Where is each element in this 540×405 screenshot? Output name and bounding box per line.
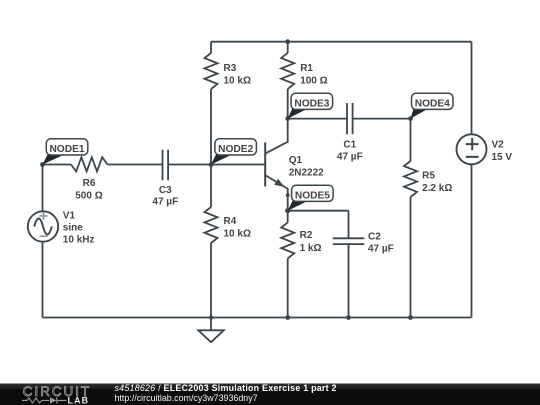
svg-text:V1: V1 bbox=[63, 211, 76, 222]
wire NODE5 junction to R2 bbox=[287, 211, 289, 223]
node NODE2 bbox=[211, 139, 256, 165]
wire bottom rail bbox=[43, 317, 472, 319]
svg-text:NODE3: NODE3 bbox=[294, 98, 329, 109]
svg-text:10 kΩ: 10 kΩ bbox=[224, 76, 251, 87]
wire NODE5 to C2 branch bbox=[288, 210, 349, 212]
wire V2 to bottom rail bbox=[471, 164, 473, 317]
voltage source V1 bbox=[28, 211, 58, 241]
svg-text:C3: C3 bbox=[159, 185, 172, 196]
capacitor C3 bbox=[163, 150, 169, 180]
svg-text:1 kΩ: 1 kΩ bbox=[300, 243, 322, 254]
wire NODE2 to Q1 base bbox=[211, 164, 265, 166]
wire NODE2 to R4 bbox=[210, 165, 212, 208]
wire C1 to NODE4 bbox=[353, 118, 411, 120]
svg-text:R2: R2 bbox=[300, 230, 313, 241]
node NODE4 bbox=[411, 93, 454, 118]
capacitor C2 bbox=[333, 238, 365, 244]
wire left rail lower (V1 to bottom rail) bbox=[42, 242, 44, 318]
wire R3 to NODE2 bbox=[210, 89, 212, 165]
svg-text:47 µF: 47 µF bbox=[337, 151, 363, 162]
svg-text:NODE4: NODE4 bbox=[415, 98, 450, 109]
node NODE5 bbox=[288, 185, 333, 211]
svg-text:2N2222: 2N2222 bbox=[289, 167, 324, 178]
svg-text:LAB: LAB bbox=[68, 396, 90, 405]
svg-text:NODE1: NODE1 bbox=[49, 144, 84, 155]
svg-text:100 Ω: 100 Ω bbox=[300, 76, 327, 87]
node junction dots bbox=[40, 39, 413, 320]
footer logo resistor-diode glyph bbox=[22, 397, 67, 403]
node NODE3 bbox=[288, 93, 333, 118]
wire NODE3 to C1 bbox=[288, 118, 347, 120]
wire top rail bbox=[211, 41, 472, 43]
svg-text:R4: R4 bbox=[224, 216, 237, 227]
wire R5 to bottom rail bbox=[410, 197, 412, 318]
wire C2 to bottom rail bbox=[348, 244, 350, 317]
svg-text:10 kΩ: 10 kΩ bbox=[224, 229, 251, 240]
svg-text:R6: R6 bbox=[83, 178, 96, 189]
svg-text:10 kHz: 10 kHz bbox=[63, 235, 95, 246]
capacitor C1 bbox=[347, 103, 353, 134]
wire R4 to bottom rail bbox=[210, 243, 212, 318]
svg-text:R1: R1 bbox=[300, 63, 313, 74]
transistor Q1 bbox=[265, 119, 288, 196]
wire R3 branch top bbox=[210, 42, 212, 53]
svg-text:2.2 kΩ: 2.2 kΩ bbox=[422, 183, 452, 194]
svg-text:Q1: Q1 bbox=[289, 155, 303, 166]
svg-text:R5: R5 bbox=[422, 170, 435, 181]
wire R2 to bottom rail bbox=[287, 258, 289, 317]
wire V2 branch top bbox=[471, 42, 473, 135]
wire NODE4 to R5 bbox=[410, 119, 412, 161]
svg-text:C1: C1 bbox=[343, 139, 356, 150]
svg-text:http://circuitlab.com/cy3w7393: http://circuitlab.com/cy3w73936dny7 bbox=[115, 393, 258, 403]
wire base NODE1 to R6 bbox=[43, 164, 72, 166]
wire R1 branch top bbox=[287, 42, 289, 53]
svg-text:s4518626 / ELEC2003 Simulation: s4518626 / ELEC2003 Simulation Exercise … bbox=[115, 383, 337, 393]
wire C3 to NODE2 bbox=[168, 164, 211, 166]
svg-text:sine: sine bbox=[63, 223, 83, 234]
svg-text:47 µF: 47 µF bbox=[152, 197, 178, 208]
resistor R4 bbox=[205, 207, 218, 243]
resistor R5 bbox=[404, 161, 417, 197]
svg-text:V2: V2 bbox=[492, 139, 505, 150]
wire Q1 emitter to NODE5 junction bbox=[287, 195, 289, 210]
svg-text:NODE2: NODE2 bbox=[218, 144, 253, 155]
wire left rail upper (NODE1 to V1) bbox=[42, 165, 44, 212]
svg-text:R3: R3 bbox=[224, 63, 237, 74]
node NODE1 bbox=[43, 139, 88, 165]
svg-text:NODE5: NODE5 bbox=[295, 190, 330, 201]
wire R6 to C3 bbox=[108, 164, 163, 166]
resistor R1 bbox=[281, 53, 294, 89]
voltage source V2 bbox=[457, 134, 487, 164]
resistor R6 bbox=[71, 157, 108, 171]
wire R1 to NODE3 bbox=[287, 89, 289, 119]
ground bbox=[198, 318, 224, 343]
svg-text:47 µF: 47 µF bbox=[368, 243, 394, 254]
resistor R2 bbox=[281, 222, 294, 258]
wire C2 branch upper bbox=[348, 211, 350, 239]
svg-text:15 V: 15 V bbox=[492, 152, 513, 163]
svg-text:C2: C2 bbox=[368, 231, 381, 242]
resistor R3 bbox=[205, 53, 218, 89]
svg-text:500 Ω: 500 Ω bbox=[75, 191, 102, 202]
footer bar bbox=[0, 384, 540, 405]
